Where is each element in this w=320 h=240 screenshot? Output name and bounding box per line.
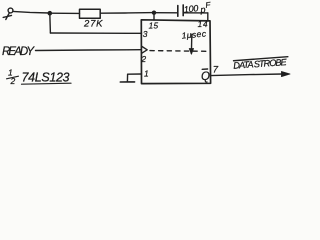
dashed timing line inside U1: [150, 50, 208, 53]
label Qbar: [201, 69, 210, 83]
node B junction dot (pin 15 node): [152, 11, 156, 15]
svg-text:15: 15: [149, 22, 159, 31]
wire: resistor R1 to node B: [100, 12, 154, 15]
svg-text:3: 3: [143, 29, 148, 39]
wire: to pin 3 of U1: [50, 32, 141, 34]
ground: [120, 81, 134, 83]
+5V supply terminal symbol: [3, 8, 13, 19]
arrowhead into pin 2: [142, 46, 147, 53]
label DATA STROBE (active low overline): [233, 57, 289, 71]
wire: junction A to resistor R1: [50, 12, 80, 14]
svg-text:74LS123: 74LS123: [22, 71, 70, 85]
wire: capacitor C1 to pin 14 corner: [183, 12, 208, 14]
IC U1 74LS123 outline: [141, 20, 210, 84]
arrowhead DATA STROBE: [282, 72, 291, 77]
svg-text:2: 2: [140, 54, 146, 64]
svg-text:27K: 27K: [83, 18, 103, 29]
1 usec pulse arrow: [189, 35, 193, 55]
wire: supply to junction A: [13, 11, 50, 13]
wire: pin 14 drop to chip top: [207, 13, 209, 21]
svg-text:7: 7: [213, 64, 219, 75]
wire: pin 1 to ground: [127, 74, 141, 82]
wire: node B to capacitor C1: [154, 12, 177, 14]
resistor R1 27K body: [80, 9, 101, 18]
label 1/2 74LS123: [7, 68, 72, 87]
label 100 pF: [183, 0, 212, 16]
capacitor C1 plates: [177, 6, 179, 17]
wire: pin 15 stub down to chip: [153, 13, 155, 20]
svg-text:100: 100: [183, 3, 198, 14]
svg-text:Q: Q: [201, 71, 210, 83]
svg-text:2: 2: [10, 76, 16, 86]
node A junction dot: [48, 11, 53, 16]
svg-text:READY: READY: [2, 46, 35, 58]
wire: READY to pin 2: [36, 49, 141, 52]
svg-text:1: 1: [144, 68, 149, 78]
wire: junction A down to pin3 level: [49, 13, 52, 33]
output wire pin 7 to arrow: [211, 74, 283, 76]
